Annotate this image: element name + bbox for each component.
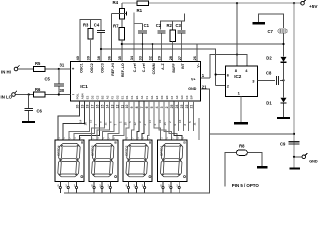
display OPTO1 bottom pins xyxy=(160,181,180,192)
wire rail D2-D1 xyxy=(283,63,285,98)
svg-text:R7: R7 xyxy=(113,24,119,29)
svg-text:G2: G2 xyxy=(115,95,119,99)
svg-text:G1: G1 xyxy=(150,95,154,99)
display fan pin labels xyxy=(57,119,197,138)
ground IC2 pin1 xyxy=(234,122,248,124)
terminal IN HI xyxy=(1,65,19,74)
svg-text:D2: D2 xyxy=(266,55,272,60)
ground C7 xyxy=(252,22,265,24)
svg-text:F2: F2 xyxy=(110,96,114,100)
svg-text:E3: E3 xyxy=(155,95,159,99)
svg-text:C–ref: C–ref xyxy=(133,62,137,72)
svg-text:15: 15 xyxy=(163,122,167,126)
svg-text:OSC2: OSC2 xyxy=(90,63,94,73)
display OPTO2 xyxy=(123,140,152,181)
svg-text:C3: C3 xyxy=(176,23,182,28)
svg-text:R6: R6 xyxy=(35,87,41,92)
diode D2 xyxy=(266,55,286,63)
svg-text:V–: V– xyxy=(196,63,200,67)
svg-text:11: 11 xyxy=(103,122,107,125)
resistor R2 xyxy=(167,21,176,42)
svg-text:GND: GND xyxy=(188,87,196,91)
svg-text:C5: C5 xyxy=(45,76,51,81)
wire R7 to pin35 junction xyxy=(121,40,123,62)
label PIN 5 / OPTO xyxy=(232,183,260,188)
svg-text:A2: A2 xyxy=(105,95,109,99)
svg-text:R1: R1 xyxy=(137,8,143,13)
junction C5/IN HI xyxy=(58,68,60,70)
IC1 pin30 label xyxy=(60,88,76,97)
wire R4 wiper to pin36 xyxy=(111,14,113,62)
display OPTO3 bottom pins xyxy=(91,181,111,192)
svg-text:B3: B3 xyxy=(165,95,169,99)
terminal IN LO xyxy=(1,91,17,100)
junction C6/IN LO xyxy=(28,93,30,95)
wire R8 right xyxy=(247,153,262,167)
svg-text:11: 11 xyxy=(193,122,197,125)
terminal GND xyxy=(302,153,318,163)
svg-text:R5: R5 xyxy=(35,61,41,66)
svg-text:9: 9 xyxy=(130,106,134,108)
svg-text:C8: C8 xyxy=(266,70,272,75)
IC1 bottom pin numbers xyxy=(76,105,194,109)
junction R7/pin35/lineA xyxy=(121,43,123,45)
wire IN LO line xyxy=(15,94,70,96)
svg-text:IN LO: IN LO xyxy=(1,95,13,100)
svg-text:IN HI: IN HI xyxy=(1,69,11,74)
svg-text:16: 16 xyxy=(84,122,88,126)
svg-text:C–ref: C–ref xyxy=(142,62,146,72)
svg-text:OSC1: OSC1 xyxy=(79,63,83,73)
wire R2 to pin28 xyxy=(172,41,174,61)
wire IC2 pin6 stub xyxy=(215,73,226,75)
svg-text:OSC3: OSC3 xyxy=(100,63,104,73)
svg-text:C2: C2 xyxy=(95,95,99,99)
svg-text:R8: R8 xyxy=(239,144,245,149)
wire bus to GND rail xyxy=(210,133,295,135)
svg-text:R3: R3 xyxy=(83,23,89,28)
capacitor C9 xyxy=(280,141,300,146)
svg-text:31: 31 xyxy=(60,63,65,68)
IC1 bottom pin labels xyxy=(76,93,194,99)
svg-text:+: + xyxy=(72,66,75,71)
svg-text:2: 2 xyxy=(165,106,169,108)
svg-text:REF–HI: REF–HI xyxy=(111,63,115,75)
wire GND rail xyxy=(293,3,295,167)
svg-text:33: 33 xyxy=(139,56,143,60)
wire C8 to rail xyxy=(280,79,285,81)
resistor R5 xyxy=(34,61,46,71)
junction +5V/IC2 pin8 wire xyxy=(236,2,238,4)
capacitor C6 xyxy=(24,95,42,121)
wire OSC bracket xyxy=(80,20,101,62)
display OPTO4 bottom pins xyxy=(58,181,78,192)
svg-text:BP: BP xyxy=(190,95,194,99)
svg-text:13: 13 xyxy=(178,119,182,123)
svg-text:BUFF: BUFF xyxy=(172,62,176,72)
wire IN HI line xyxy=(18,68,71,70)
junction GND/display bus xyxy=(293,133,295,135)
wire GND stub xyxy=(293,156,302,158)
IC1 pin1 label xyxy=(191,73,205,81)
capacitor C5 xyxy=(45,69,64,95)
wire IC2 pin3 stub xyxy=(258,79,275,81)
svg-text:D3: D3 xyxy=(160,95,164,99)
wire pin32 drop xyxy=(152,43,154,61)
svg-text:28: 28 xyxy=(169,56,173,60)
op-amp IC1 ICL7107 body xyxy=(70,62,200,102)
svg-text:12: 12 xyxy=(133,122,137,126)
svg-text:B2: B2 xyxy=(100,95,104,99)
resistor R3 xyxy=(83,20,93,40)
svg-text:F3: F3 xyxy=(170,96,174,100)
capacitor C2 xyxy=(156,23,166,34)
svg-text:C6: C6 xyxy=(37,108,43,113)
diode D1 xyxy=(266,98,286,106)
svg-text:COMM: COMM xyxy=(152,63,156,74)
svg-text:18: 18 xyxy=(123,122,127,126)
svg-text:REF–LO: REF–LO xyxy=(121,63,125,77)
svg-text:C4: C4 xyxy=(94,23,100,28)
svg-text:D1: D1 xyxy=(125,95,129,99)
svg-text:IC2: IC2 xyxy=(234,74,242,79)
capacitor C3 xyxy=(176,21,186,34)
svg-text:V+: V+ xyxy=(191,78,196,82)
svg-text:R4: R4 xyxy=(113,0,119,5)
svg-text:40: 40 xyxy=(76,56,80,60)
svg-text:A3: A3 xyxy=(175,95,179,99)
svg-text:14: 14 xyxy=(79,119,83,123)
IC1 pin21 label xyxy=(188,84,207,91)
junction +5V/GND-rail drop xyxy=(293,2,295,4)
wire C7 bracket xyxy=(259,14,284,28)
svg-text:29: 29 xyxy=(158,56,162,60)
display OPTO2 bottom pins xyxy=(126,181,146,192)
capacitor C7 xyxy=(268,29,288,34)
svg-text:IC1: IC1 xyxy=(80,84,88,90)
svg-text:10: 10 xyxy=(125,105,129,109)
resistor R7 xyxy=(113,19,124,40)
svg-text:25: 25 xyxy=(170,105,174,109)
ground GND rail xyxy=(289,168,300,170)
junction C5/IN LO xyxy=(58,93,60,95)
wire C4 to pin38 xyxy=(100,33,102,62)
wire display common bus xyxy=(64,89,210,193)
wire R8 left / PIN5 xyxy=(225,153,237,187)
svg-text:R2: R2 xyxy=(167,23,173,28)
capacitor C1 xyxy=(134,12,150,33)
svg-text:39: 39 xyxy=(87,56,91,60)
capacitor C8 xyxy=(266,70,279,84)
IC1 top pin number labels xyxy=(76,55,200,77)
wire C2 to pin29 xyxy=(161,34,163,62)
svg-text:C3: C3 xyxy=(185,95,189,99)
wire pin34 riser xyxy=(133,23,135,61)
wire C3 to pin27 xyxy=(181,34,183,62)
svg-text:D1: D1 xyxy=(266,100,272,105)
wire C1 to pin33 xyxy=(142,34,144,62)
wire IC2 pin2 stub xyxy=(216,85,226,87)
svg-text:PIN 5 / OPTO: PIN 5 / OPTO xyxy=(232,183,260,188)
svg-text:+5V: +5V xyxy=(309,4,318,9)
svg-text:GND: GND xyxy=(309,159,318,163)
resistor R6 xyxy=(34,87,46,97)
svg-text:POL: POL xyxy=(76,93,80,99)
svg-text:C1: C1 xyxy=(144,23,150,28)
svg-text:27: 27 xyxy=(178,56,182,60)
trimmer R4 xyxy=(112,0,127,19)
svg-text:INT: INT xyxy=(181,62,185,69)
svg-text:A–Z: A–Z xyxy=(161,62,165,69)
svg-text:35: 35 xyxy=(118,56,122,60)
svg-text:32: 32 xyxy=(149,56,153,60)
svg-text:36: 36 xyxy=(108,56,112,60)
wire IC2 pin8 riser xyxy=(236,3,238,66)
wire net OSC3 (line B) xyxy=(100,48,216,86)
svg-text:E1: E1 xyxy=(120,95,124,99)
svg-text:26: 26 xyxy=(193,56,197,60)
svg-text:13: 13 xyxy=(89,119,93,123)
wire C2R2C3 bracket xyxy=(161,14,185,30)
capacitor C4 xyxy=(94,23,105,33)
wire +5V rail xyxy=(122,2,302,4)
svg-text:10: 10 xyxy=(158,119,162,123)
display OPTO4 xyxy=(55,140,84,181)
ground C6 xyxy=(22,121,35,123)
svg-text:A1: A1 xyxy=(140,95,144,99)
wire display segment fan xyxy=(58,101,194,140)
wire rail C7-D2 xyxy=(282,33,284,56)
ground D1 xyxy=(277,117,290,119)
wire pin26 V- drop xyxy=(196,44,198,62)
svg-text:C7: C7 xyxy=(268,29,274,34)
svg-text:21: 21 xyxy=(190,105,194,109)
svg-text:C1: C1 xyxy=(130,95,134,99)
junction lineC/+5V drop xyxy=(236,53,238,55)
IC2 name label xyxy=(234,74,242,79)
wire V+ net (line C) xyxy=(200,55,247,78)
IC2 pin labels xyxy=(227,68,256,95)
display OPTO1 xyxy=(158,140,187,181)
wire D1 side drop xyxy=(198,118,200,140)
junction C1/pin33/lineA xyxy=(142,43,144,45)
wire rail D1-ground xyxy=(283,104,285,117)
resistor R8 xyxy=(237,144,248,156)
wire IC2 pin1 to ground xyxy=(240,97,242,123)
wire net COMMON (line A) xyxy=(122,43,284,45)
wire R3 to pin39 xyxy=(90,39,92,62)
svg-text:G3: G3 xyxy=(180,95,184,99)
svg-text:AB4: AB4 xyxy=(81,93,85,99)
svg-text:E2: E2 xyxy=(86,95,90,99)
svg-text:17: 17 xyxy=(148,119,152,123)
svg-text:B1: B1 xyxy=(135,95,139,99)
svg-text:30: 30 xyxy=(60,88,65,93)
svg-text:C9: C9 xyxy=(280,142,286,147)
resistor R1 xyxy=(137,1,149,13)
IC1 name label xyxy=(80,84,88,90)
ground R8 xyxy=(257,166,268,168)
op-amp IC2 body xyxy=(226,66,258,97)
svg-text:F1: F1 xyxy=(145,96,149,100)
svg-text:38: 38 xyxy=(97,56,101,60)
svg-text:C2: C2 xyxy=(156,23,162,28)
svg-text:D2: D2 xyxy=(91,95,95,99)
display OPTO3 xyxy=(89,140,118,181)
terminal +5V xyxy=(301,0,319,9)
IC1 pin31 label xyxy=(60,63,75,72)
